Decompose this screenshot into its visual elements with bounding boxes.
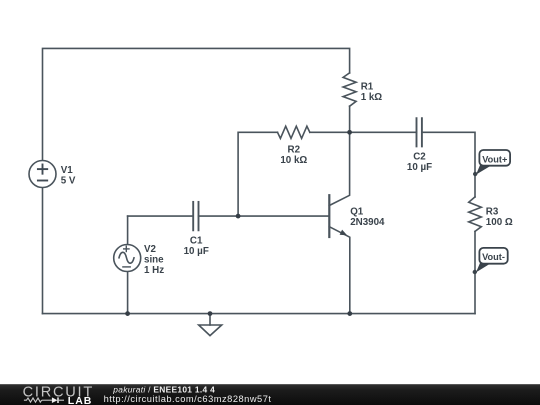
CircuitLab logo diode <box>42 397 64 403</box>
ground <box>199 314 222 336</box>
capacitor C2 plates <box>417 118 422 146</box>
V1 minus sign <box>38 180 47 182</box>
wire C2 right plate to R3 top <box>422 132 475 197</box>
flag Vout- <box>473 248 508 274</box>
Q1 emitter arrow <box>340 230 348 236</box>
V2 sine wave <box>119 252 134 263</box>
footer bar <box>0 384 540 405</box>
label C1 <box>184 236 209 258</box>
flag Vout+ <box>473 150 510 176</box>
wire R2 right lead <box>310 131 350 133</box>
svg-text:Q1: Q1 <box>350 207 364 218</box>
wire corner down to V2 top <box>127 216 129 244</box>
label V1 <box>61 165 76 186</box>
resistor R3 <box>469 197 482 232</box>
svg-text:C2: C2 <box>413 151 426 162</box>
wire node B to C2 left plate <box>350 131 417 133</box>
label V2 <box>144 244 164 276</box>
svg-text:C1: C1 <box>190 236 203 247</box>
wire corner to C1 left plate <box>128 215 194 217</box>
label C2 <box>407 151 432 173</box>
wire V1 bottom to bottom rail <box>42 188 44 314</box>
V1 plus sign <box>38 165 47 174</box>
node C junction dot (R2/C1) <box>236 214 241 219</box>
resistor R2 <box>278 126 310 138</box>
svg-text:R1: R1 <box>361 81 374 92</box>
svg-text:100 Ω: 100 Ω <box>486 217 513 228</box>
Q1 base bar <box>328 195 330 237</box>
wire V1 top to R1 top <box>43 48 350 160</box>
svg-text:http://circuitlab.com/c63mz828: http://circuitlab.com/c63mz828nw57t <box>104 394 272 404</box>
node B junction dot <box>347 130 352 135</box>
voltage source V1 circle <box>29 161 56 188</box>
wire R3 bottom to bottom rail <box>474 231 476 313</box>
Q1 collector <box>329 132 349 205</box>
transistor Q1 <box>329 132 350 313</box>
capacitor C1 plates <box>193 202 198 230</box>
junction dot ground <box>208 311 213 316</box>
svg-text:10 µF: 10 µF <box>184 246 209 257</box>
svg-text:1 kΩ: 1 kΩ <box>361 92 383 103</box>
svg-text:sine: sine <box>144 254 164 265</box>
wire C1 right plate to Q1 base <box>199 215 330 217</box>
Q1 emitter <box>329 227 350 314</box>
V2 minus sign <box>123 266 130 268</box>
svg-text:2N3904: 2N3904 <box>350 217 385 228</box>
V2 plus sign <box>124 246 129 251</box>
voltage source V2 circle <box>114 245 141 272</box>
svg-text:10 kΩ: 10 kΩ <box>280 155 307 166</box>
label R3 <box>486 207 513 229</box>
label Q1 <box>350 207 385 229</box>
junction dot emitter bottom <box>347 311 352 316</box>
svg-text:LAB: LAB <box>68 395 93 405</box>
svg-text:1 Hz: 1 Hz <box>144 265 164 276</box>
svg-text:Vout-: Vout- <box>482 252 505 262</box>
label R2 <box>280 145 307 167</box>
wire V2 bottom to bottom rail <box>127 272 129 314</box>
svg-text:R2: R2 <box>288 145 301 156</box>
CircuitLab logo resistor zigzag <box>24 398 42 402</box>
svg-text:V2: V2 <box>144 244 157 255</box>
wire bottom rail <box>43 313 476 315</box>
svg-text:10 µF: 10 µF <box>407 162 432 173</box>
junction dot V2 bottom <box>125 311 130 316</box>
svg-text:5 V: 5 V <box>61 176 76 187</box>
wire R1 bottom to node B <box>349 106 351 132</box>
label R1 <box>361 81 383 103</box>
svg-text:R3: R3 <box>486 207 499 218</box>
wire R2 left lead down to node C <box>238 132 277 216</box>
svg-text:Vout+: Vout+ <box>482 154 507 164</box>
resistor R1 <box>343 73 356 106</box>
svg-text:V1: V1 <box>61 165 74 176</box>
